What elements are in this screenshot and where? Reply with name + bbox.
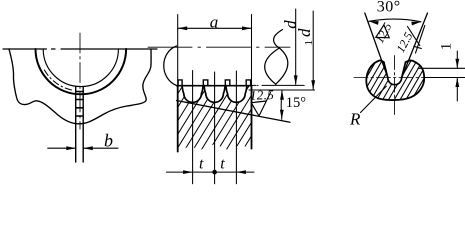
svg-text:R: R bbox=[349, 110, 361, 129]
svg-text:12.5: 12.5 bbox=[372, 20, 394, 45]
svg-text:1: 1 bbox=[303, 40, 315, 46]
svg-text:d: d bbox=[281, 20, 300, 29]
svg-text:12.5: 12.5 bbox=[250, 87, 275, 103]
svg-text:1: 1 bbox=[439, 43, 455, 51]
svg-text:d: d bbox=[295, 28, 314, 37]
svg-text:30°: 30° bbox=[377, 0, 401, 16]
svg-text:15°: 15° bbox=[286, 95, 307, 111]
svg-text:a: a bbox=[210, 13, 219, 32]
svg-text:t: t bbox=[199, 156, 204, 173]
svg-text:t: t bbox=[220, 156, 225, 173]
svg-text:b: b bbox=[104, 131, 113, 151]
